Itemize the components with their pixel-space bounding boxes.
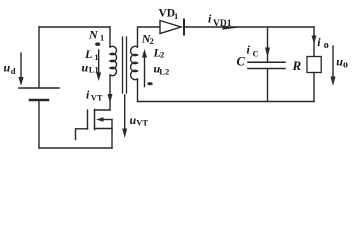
svg-text:o: o bbox=[343, 60, 348, 71]
svg-text:i: i bbox=[86, 88, 90, 102]
svg-text:C: C bbox=[253, 49, 259, 59]
svg-text:VT: VT bbox=[136, 118, 148, 128]
svg-text:o: o bbox=[324, 40, 329, 51]
svg-text:1: 1 bbox=[100, 33, 104, 43]
svg-text:i: i bbox=[208, 12, 212, 26]
svg-text:1: 1 bbox=[174, 11, 178, 21]
svg-text:VT: VT bbox=[91, 93, 103, 103]
svg-text:u: u bbox=[82, 61, 89, 75]
svg-text:u: u bbox=[4, 61, 11, 75]
svg-text:1: 1 bbox=[94, 52, 98, 62]
svg-text:2: 2 bbox=[160, 50, 164, 60]
svg-text:d: d bbox=[11, 66, 16, 76]
svg-text:C: C bbox=[237, 55, 246, 69]
svg-text:N: N bbox=[88, 27, 99, 41]
svg-text:VD: VD bbox=[159, 8, 176, 20]
svg-text:i: i bbox=[247, 43, 251, 57]
svg-text:L1: L1 bbox=[89, 65, 99, 75]
svg-text:i: i bbox=[317, 35, 321, 49]
svg-text:R: R bbox=[292, 58, 302, 73]
svg-text:VD1: VD1 bbox=[213, 19, 232, 29]
svg-text:L: L bbox=[84, 47, 92, 61]
svg-text:L2: L2 bbox=[159, 67, 169, 77]
